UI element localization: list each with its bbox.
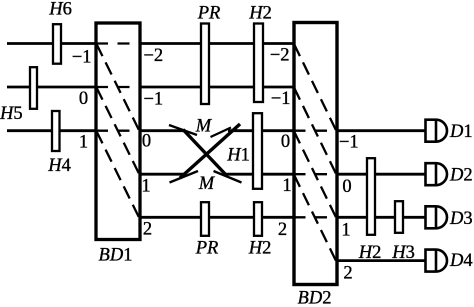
wire input line 1 (y131) [7,129,96,132]
svg-text:H5: H5 [0,104,23,124]
svg-text:1: 1 [282,176,291,196]
BD1 dashed diagonal path 1 to 2 [97,131,140,218]
wire line 0 from mirror to BD2 [228,129,294,132]
BD1 dashed straight path at y44 [96,42,139,44]
phase retarder PR (line 2) [201,202,209,236]
half-wave plate H2 (line 2) [254,202,262,236]
svg-text:H4: H4 [47,156,71,176]
beam displacer BD2 [294,23,337,285]
svg-text:PR: PR [197,3,221,23]
half-wave plate H2 (right, two-mode) [367,158,375,235]
wire line -1 between BD1 and BD2 [140,86,294,89]
wire line 0 from BD1 to mirror [140,129,186,132]
detector D1 [426,120,448,142]
svg-text:0: 0 [79,89,88,109]
detector D2 [426,163,448,185]
svg-text:H1: H1 [226,146,250,166]
half-wave plate H3 [395,201,403,233]
half-wave plate H4 [52,111,60,151]
svg-text:0: 0 [281,132,290,152]
BD1 dashed diagonal path -1 to 0 [97,44,140,131]
half-wave plate H2 (top, two-mode) [254,24,263,103]
svg-text:−2: −2 [270,46,290,66]
svg-text:2: 2 [143,220,152,240]
svg-text:H6: H6 [48,0,72,20]
beam displacer BD1 [96,23,140,240]
svg-text:−1: −1 [339,133,359,153]
BD1 dashed diagonal path 0 to 1 [97,88,140,175]
mirror beam cross A (down-going) [183,130,228,177]
mirror tick bottom-left [170,171,199,183]
BD2 dashed diagonal path 1 to bottom [294,175,337,262]
svg-text:−1: −1 [144,90,164,110]
svg-text:BD1: BD1 [99,246,133,266]
detector D3 [426,206,448,228]
wire line 1 from BD2 to D3 [337,216,426,219]
mirror tick top-right [211,128,232,138]
mirror tick bottom-right [214,171,242,183]
phase retarder PR (top, two-mode) [201,24,209,105]
detector D4 [426,250,448,272]
svg-text:1: 1 [341,221,350,241]
mirror beam cross B (up-going) [180,124,240,178]
wire line 0 from BD2 to D2 [337,173,426,176]
wire line -2 between BD1 and BD2 [140,42,294,45]
half-wave plate H6 [53,24,61,64]
svg-text:H2: H2 [358,243,382,263]
svg-text:BD2: BD2 [298,289,332,307]
svg-text:M: M [195,117,213,137]
half-wave plate H1 (two-mode) [253,113,262,189]
BD2 dashed straight path at y131 [294,130,337,132]
svg-text:D4: D4 [449,251,473,271]
svg-text:0: 0 [142,132,151,152]
svg-text:2: 2 [278,220,287,240]
svg-text:H2: H2 [248,3,272,23]
svg-text:H3: H3 [391,243,415,263]
svg-text:PR: PR [195,239,219,259]
BD2 dashed diagonal path 0 to 2 [294,131,337,218]
wire line 1 from BD1 to mirror [140,173,187,176]
BD2 dashed straight path at y174 [294,173,337,175]
BD2 dashed diagonal path -1 to 1 [294,88,337,175]
wire input line 0 (y87) [7,86,96,89]
svg-text:M: M [198,174,216,194]
svg-text:2: 2 [343,264,352,284]
svg-text:D1: D1 [449,122,473,142]
svg-text:D3: D3 [449,209,473,229]
wire line 2 between BD1 and BD2 [140,216,294,219]
BD2 dashed diagonal path -2 to 0 [294,44,337,131]
wire input line -1 (top, y44) [7,42,96,45]
wire line -1 from BD2 to D1 [337,129,426,132]
wire line 2 from BD2 to D4 [337,259,426,262]
svg-text:0: 0 [342,177,351,197]
svg-text:1: 1 [141,177,150,197]
BD2 dashed straight path at y217 [294,216,337,218]
BD1 dashed straight path at y131 [96,130,139,132]
svg-text:D2: D2 [449,166,473,186]
mirror tick top-left [169,125,197,135]
half-wave plate H5 [30,67,37,109]
svg-text:H2: H2 [248,239,272,259]
BD1 dashed straight path at y87 [96,86,139,88]
wire line 1 from mirror to BD2 [226,173,294,176]
svg-text:−1: −1 [72,48,92,68]
svg-text:−1: −1 [271,89,291,109]
svg-text:1: 1 [79,133,88,153]
svg-text:−2: −2 [144,46,164,66]
